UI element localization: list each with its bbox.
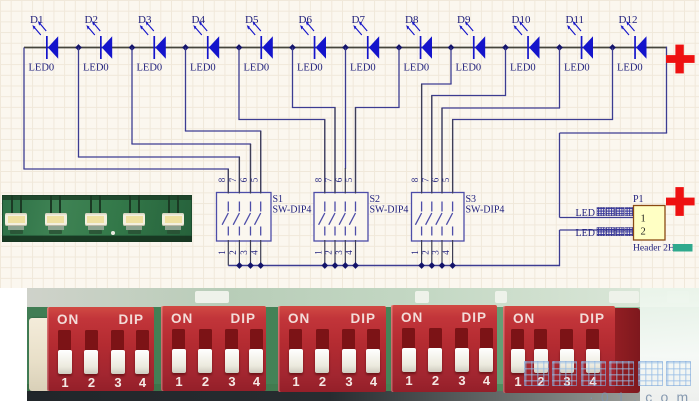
svg-text:SW-DIP4: SW-DIP4 (466, 205, 505, 216)
svg-text:D7: D7 (352, 14, 366, 26)
teal marker bar (673, 244, 693, 252)
wire node N3 to S1 pin 5 (185, 48, 261, 193)
svg-text:7: 7 (324, 177, 334, 182)
DIP switch photo SW2 (161, 306, 266, 391)
svg-text:2: 2 (641, 227, 646, 238)
junction bus at S2 pin 2 (332, 262, 339, 269)
junction node N9 (502, 44, 509, 51)
svg-text:7: 7 (420, 177, 430, 182)
wire LED chain anode rail (24, 47, 667, 49)
svg-text:1: 1 (313, 250, 323, 255)
junction node N6 (342, 44, 349, 51)
wire node N9 to S3 pin 7 (431, 48, 506, 193)
svg-text:7: 7 (228, 177, 238, 182)
DIP switch S1 SW-DIP4 (217, 131, 272, 266)
junction node N10 (556, 44, 563, 51)
svg-text:LED0: LED0 (137, 63, 163, 74)
LED D8 (406, 21, 432, 59)
svg-text:D5: D5 (245, 14, 259, 26)
LED D10 (514, 21, 540, 59)
LED D5 (247, 21, 273, 59)
svg-text:D8: D8 (405, 14, 419, 26)
svg-text:D1: D1 (30, 14, 43, 26)
LED D11 (567, 21, 593, 59)
wire node N7 to S2 pin 5 (355, 48, 400, 193)
svg-text:LED0: LED0 (29, 63, 55, 74)
connector P1 Header 2H (634, 206, 666, 241)
DIP switch S3 SW-DIP4 (412, 84, 465, 266)
svg-text:3: 3 (239, 250, 249, 255)
junction bus at S3 pin 3 (439, 262, 446, 269)
svg-text:1: 1 (217, 250, 227, 255)
junction bus at S3 pin 2 (428, 262, 435, 269)
svg-text:D4: D4 (192, 14, 206, 26)
svg-text:D10: D10 (512, 14, 531, 26)
watermark url (589, 389, 699, 405)
svg-text:SW-DIP4: SW-DIP4 (273, 205, 312, 216)
wire node N4 to S2 pin 8 (238, 48, 325, 193)
svg-text:3: 3 (334, 250, 344, 255)
svg-text:D3: D3 (138, 14, 152, 26)
svg-text:P1: P1 (633, 194, 644, 205)
svg-text:1: 1 (641, 214, 646, 225)
junction node N4 (236, 44, 243, 51)
schematic sheet background (0, 0, 699, 288)
svg-text:LED0: LED0 (456, 63, 482, 74)
wire negative bus to P1 pin 2 (228, 230, 633, 266)
junction bus at S2 pin 4 (352, 262, 359, 269)
net label LED dianyuan negative (576, 228, 634, 240)
DIP switch photo SW3 (278, 306, 386, 392)
junction bus at S2 pin 3 (342, 262, 349, 269)
LED D2 (86, 21, 112, 59)
LED D1 (32, 21, 58, 59)
svg-text:2: 2 (420, 250, 430, 255)
svg-text:D9: D9 (457, 14, 471, 26)
svg-text:8: 8 (217, 177, 227, 182)
junction node N1 (75, 44, 82, 51)
svg-text:6: 6 (334, 177, 344, 182)
svg-text:5: 5 (441, 177, 451, 182)
DIP switch photo SW1 (47, 307, 154, 391)
DIP switch photo SW4 (391, 305, 497, 392)
wire node N8 to S3 pin 8 (421, 48, 452, 193)
svg-text:4: 4 (441, 250, 451, 255)
junction node N5 (289, 44, 296, 51)
svg-text:8: 8 (313, 177, 323, 182)
junction node N3 (182, 44, 189, 51)
svg-text:LED0: LED0 (617, 63, 643, 74)
svg-text:6: 6 (431, 177, 441, 182)
svg-text:D11: D11 (566, 14, 585, 26)
svg-text:5: 5 (344, 177, 354, 182)
svg-text:8: 8 (410, 177, 420, 182)
LED D3 (140, 21, 166, 59)
LED D7 (353, 21, 379, 59)
LED D4 (193, 21, 219, 59)
LED D12 (621, 21, 647, 59)
wire node N1 to S1 pin 7 (78, 48, 240, 193)
svg-text:LED: LED (576, 208, 595, 219)
svg-text:2: 2 (324, 250, 334, 255)
junction node N7 (396, 44, 403, 51)
photo of PCB with SMD LEDs (2, 195, 192, 242)
wire node N5 to S2 pin 7 (292, 48, 336, 193)
wire positive rail to P1 pin 1 (560, 47, 668, 218)
junction node N2 (129, 44, 136, 51)
svg-text:6: 6 (239, 177, 249, 182)
svg-text:LED0: LED0 (297, 63, 323, 74)
junction bus at S2 pin 1 (321, 262, 328, 269)
svg-text:LED0: LED0 (190, 63, 216, 74)
svg-text:4: 4 (249, 250, 259, 255)
svg-text:LED0: LED0 (564, 63, 590, 74)
svg-text:1: 1 (410, 250, 420, 255)
wire node N11 to S3 pin 5 (452, 48, 613, 193)
svg-text:5: 5 (249, 177, 259, 182)
wire node N10 to S3 pin 6 (441, 48, 560, 193)
svg-text:LED0: LED0 (510, 63, 536, 74)
svg-text:3: 3 (431, 250, 441, 255)
svg-text:D6: D6 (299, 14, 313, 26)
wire node N6 to S2 pin 6 (345, 48, 347, 170)
photo of red DIP switches on PCB (27, 288, 699, 401)
red plus marker bottom right (666, 187, 695, 216)
net label LED dianyuan positive (576, 208, 634, 220)
svg-text:D2: D2 (85, 14, 98, 26)
junction bus at S1 pin 4 (257, 262, 264, 269)
LED D6 (300, 21, 326, 59)
wire node N2 to S1 pin 6 (131, 48, 251, 193)
svg-text:LED: LED (576, 228, 595, 239)
junction bus at S3 pin 1 (418, 262, 425, 269)
junction bus at S3 pin 4 (449, 262, 456, 269)
svg-text:S1: S1 (273, 194, 284, 205)
svg-text:LED0: LED0 (83, 63, 109, 74)
junction bus at S1 pin 2 (236, 262, 243, 269)
svg-text:LED0: LED0 (404, 63, 430, 74)
svg-text:4: 4 (344, 250, 354, 255)
DIP switch photo SW5 (503, 306, 640, 393)
svg-text:S3: S3 (466, 194, 477, 205)
red plus marker top right (666, 45, 695, 74)
svg-text:SW-DIP4: SW-DIP4 (370, 205, 409, 216)
svg-text:S2: S2 (370, 194, 381, 205)
wire node N0 to S1 pin 8 (23, 48, 229, 193)
svg-text:LED0: LED0 (244, 63, 270, 74)
junction node N8 (448, 44, 455, 51)
watermark text (524, 361, 699, 387)
svg-text:Header 2H: Header 2H (633, 243, 675, 254)
junction bus at S1 pin 3 (247, 262, 254, 269)
junction node N11 (609, 44, 616, 51)
svg-text:D12: D12 (619, 14, 638, 26)
svg-text:2: 2 (228, 250, 238, 255)
DIP switch S2 SW-DIP4 (314, 108, 368, 266)
svg-text:LED0: LED0 (350, 63, 376, 74)
LED D9 (459, 21, 485, 59)
